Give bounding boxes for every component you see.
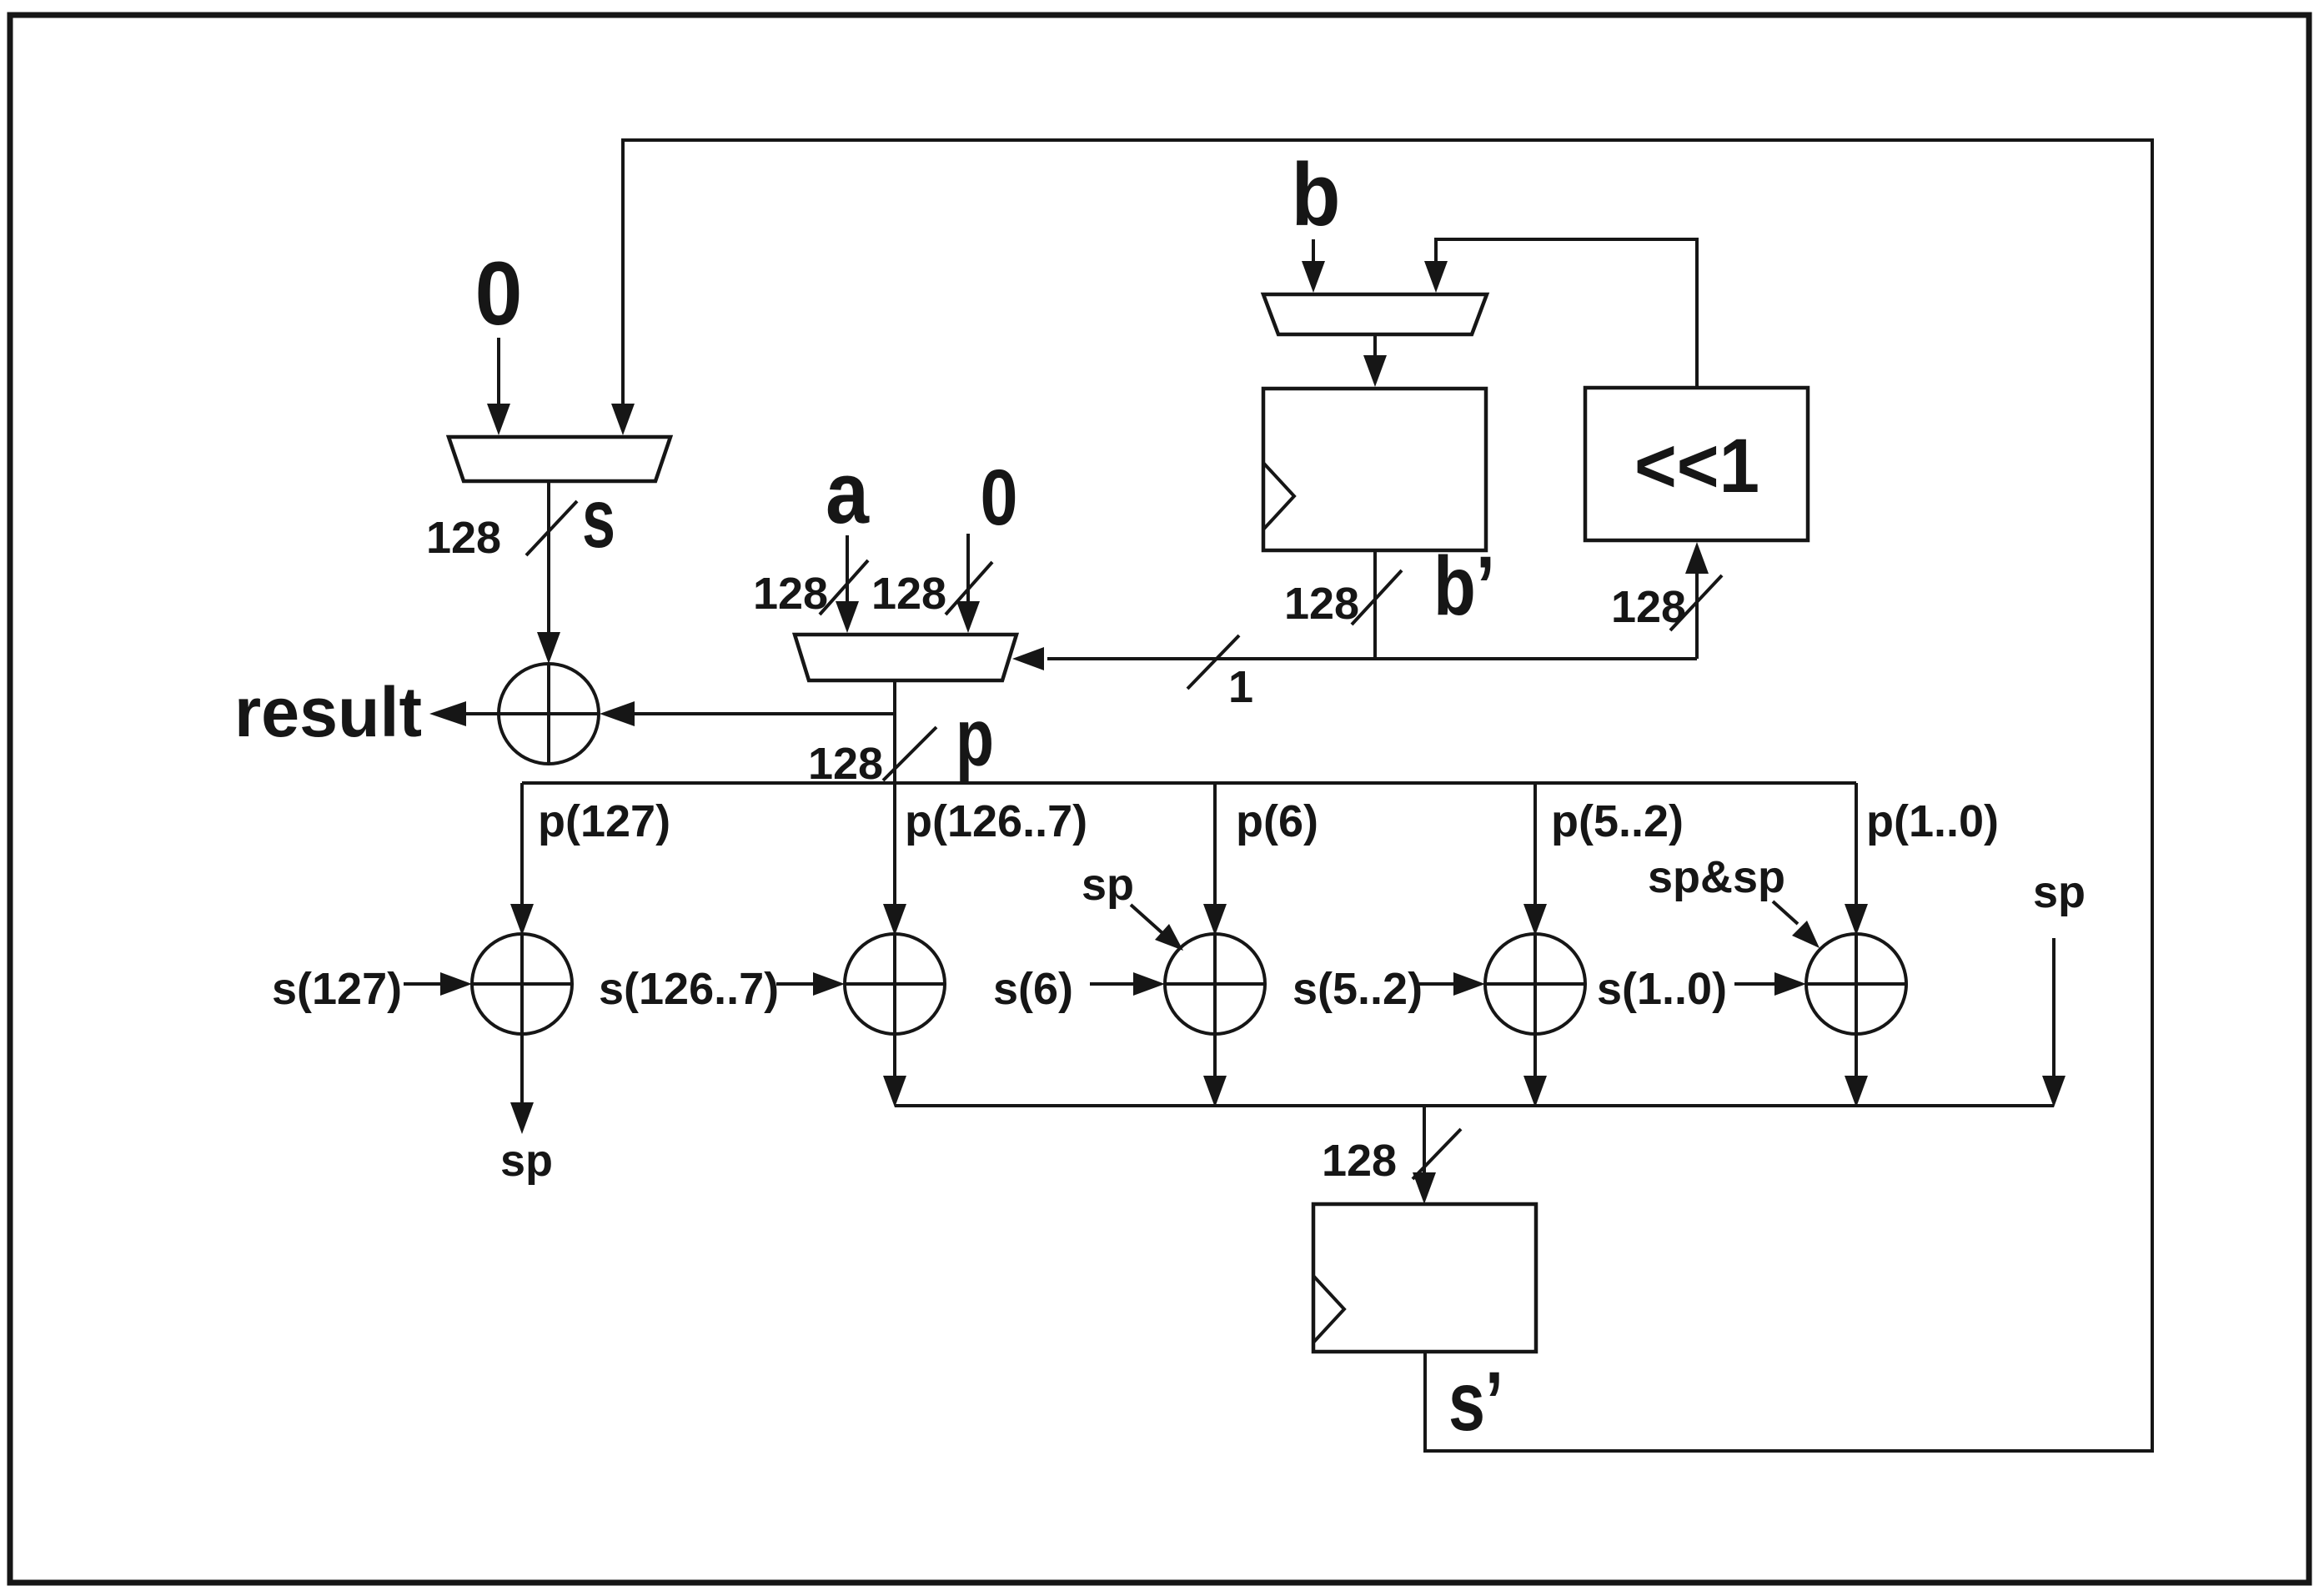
wire xor output at x=1457 to collect bus	[1213, 1034, 1217, 1077]
wire s (M1 output to XOR X1)	[547, 481, 550, 634]
svg-text:128: 128	[1284, 579, 1359, 629]
wire sp (far right) to collect bus	[2052, 938, 2055, 1077]
wire X1 output to result	[464, 712, 499, 715]
svg-text:128: 128	[1322, 1136, 1397, 1186]
register R1 (b')	[1263, 389, 1486, 550]
wire into shifter S1	[1695, 564, 1699, 659]
svg-text:s(127): s(127)	[272, 964, 402, 1014]
bus slash b' (register output)	[1352, 570, 1402, 625]
svg-text:128: 128	[1611, 582, 1686, 632]
wire tap p(6) from p bus	[1213, 783, 1217, 906]
xor X3	[845, 934, 945, 1034]
svg-text:sp&sp: sp&sp	[1648, 852, 1785, 902]
bus slash 0	[946, 562, 992, 615]
wire sp into xor X4	[1131, 905, 1162, 933]
wire p bus (horizontal distribution)	[522, 781, 1856, 785]
wire s(1..0) into xor	[1734, 982, 1774, 986]
wire p into X1 (from p node)	[634, 712, 895, 715]
svg-text:s(1..0): s(1..0)	[1597, 964, 1727, 1014]
svg-text:1: 1	[1228, 662, 1253, 712]
svg-text:sp: sp	[1082, 860, 1134, 910]
xor X4	[1165, 934, 1265, 1034]
svg-text:result: result	[234, 673, 422, 751]
bus slash p	[883, 727, 936, 780]
mux M3 (b select)	[1263, 294, 1487, 334]
svg-text:a: a	[826, 444, 870, 542]
svg-text:128: 128	[753, 569, 828, 619]
svg-text:<<1: <<1	[1634, 424, 1759, 509]
wire s' collect bus	[895, 1104, 2054, 1107]
wire tap p(127) from p bus	[520, 783, 524, 906]
wire tap p(126..7) from p bus	[893, 783, 896, 906]
svg-text:s’: s’	[1448, 1355, 1503, 1448]
svg-text:0: 0	[981, 454, 1018, 542]
xor X5	[1485, 934, 1585, 1034]
xor X2	[472, 934, 572, 1034]
wire p (M2 output down to p bus)	[893, 680, 896, 783]
wire s' feedback loop (s' register output, up right side, across top, down into mux M1)	[623, 140, 2152, 1451]
register R2 (s')	[1313, 1204, 1536, 1352]
bus slash 1 (select into M2)	[1187, 635, 1239, 689]
wire s(5..2) into xor	[1415, 982, 1453, 986]
wire 0 into mux M1	[497, 338, 500, 405]
svg-text:s(126..7): s(126..7)	[599, 964, 779, 1014]
bus slash s' input	[1413, 1129, 1461, 1179]
svg-text:b’: b’	[1433, 540, 1495, 633]
wire M3 output into register R1	[1373, 334, 1377, 355]
svg-text:0: 0	[475, 243, 523, 344]
xor X6	[1806, 934, 1906, 1034]
svg-text:sp: sp	[2033, 867, 2086, 917]
svg-text:p(6): p(6)	[1236, 796, 1318, 846]
svg-text:s: s	[582, 472, 615, 565]
shifter S1 (<<1)	[1585, 388, 1808, 540]
svg-text:b: b	[1292, 144, 1341, 244]
wire collect bus into register R2	[1423, 1106, 1426, 1174]
bus slash a	[820, 560, 868, 615]
mux M1 (s select)	[449, 437, 670, 481]
wire tap p(1..0) from p bus	[1855, 783, 1858, 906]
svg-text:p(126..7): p(126..7)	[905, 796, 1087, 846]
wire 0 into mux M2	[966, 534, 970, 601]
wire s(127) into xor	[404, 982, 440, 986]
wire b into mux M3	[1312, 239, 1315, 261]
wire xor output at x=2226 to collect bus	[1855, 1034, 1858, 1077]
wire xor output at x=1073 to collect bus	[893, 1034, 896, 1077]
svg-text:128: 128	[871, 569, 946, 619]
bus slash s	[526, 501, 577, 555]
wire s(6) into xor	[1090, 982, 1133, 986]
svg-text:s(6): s(6)	[993, 964, 1073, 1014]
svg-text:sp: sp	[500, 1136, 553, 1186]
svg-text:p(127): p(127)	[538, 796, 670, 846]
mux M2 (p select)	[795, 635, 1016, 680]
svg-text:128: 128	[426, 513, 501, 563]
wire xor output at x=1841 to collect bus	[1533, 1034, 1537, 1077]
wire s(126..7) into xor	[776, 982, 813, 986]
wire b' bus (register R1 output to mux M2 and shifter)	[1047, 550, 1697, 659]
svg-text:s(5..2): s(5..2)	[1293, 964, 1423, 1014]
wire sp&sp into xor X6	[1773, 901, 1798, 924]
wire a into mux M2	[846, 535, 849, 601]
svg-text:p(5..2): p(5..2)	[1551, 796, 1684, 846]
svg-text:p: p	[956, 692, 994, 783]
bus slash shifter input	[1670, 575, 1722, 630]
xor X1 (result)	[499, 664, 599, 764]
svg-text:p(1..0): p(1..0)	[1866, 796, 1999, 846]
wire X2 output to sp	[520, 1034, 524, 1104]
wire tap p(5..2) from p bus	[1533, 783, 1537, 906]
wire shifter S1 output to mux M3	[1436, 239, 1697, 388]
